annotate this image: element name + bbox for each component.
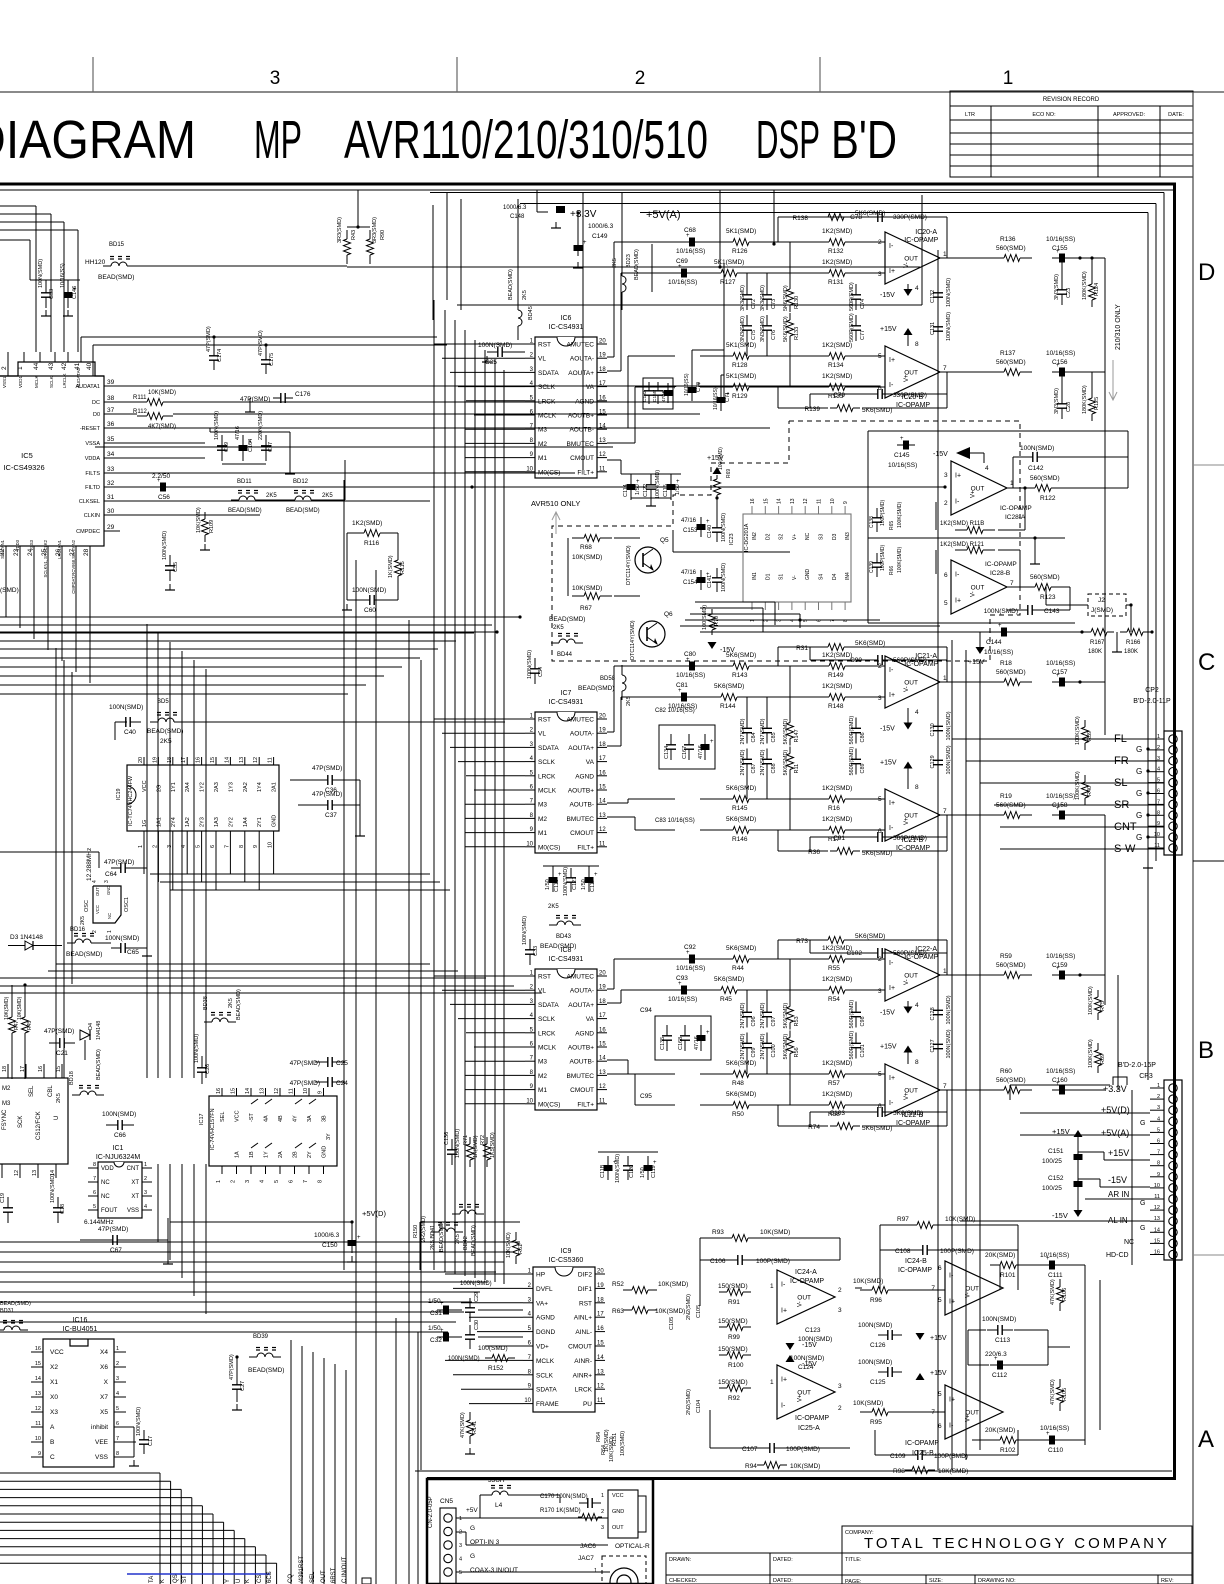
svg-text:C134: C134: [664, 746, 670, 759]
IC17 IC-74VHC157FN: [209, 1096, 337, 1166]
svg-text:I+: I+: [889, 692, 895, 699]
svg-text:47P(SMD): 47P(SMD): [258, 330, 264, 356]
svg-text:I+: I+: [955, 598, 961, 605]
svg-text:2K5: 2K5: [80, 916, 86, 925]
svg-text:FRAME: FRAME: [536, 1401, 559, 1408]
capacitor C33 100N(SMD): [529, 939, 531, 950]
svg-text:10/16(SS): 10/16(SS): [1046, 793, 1075, 800]
svg-text:10K(SMD): 10K(SMD): [196, 507, 202, 533]
capacitor C114 1/50: [630, 474, 632, 500]
svg-text:6: 6: [878, 1103, 882, 1110]
capacitor C55 100N(SMD): [169, 555, 171, 566]
svg-text:150(SMD): 150(SMD): [718, 1346, 748, 1353]
capacitor C130 100N(SMD): [937, 717, 939, 727]
svg-text:19: 19: [599, 728, 606, 734]
svg-text:10K(SMD): 10K(SMD): [853, 1278, 883, 1285]
svg-text:17: 17: [599, 756, 606, 762]
capacitor C36 47P(SMD): [315, 779, 328, 781]
svg-text:I+: I+: [781, 1308, 787, 1315]
svg-text:X7: X7: [100, 1394, 108, 1401]
svg-text:VA: VA: [586, 1016, 595, 1023]
svg-text:VL: VL: [538, 731, 546, 738]
svg-text:I-: I-: [889, 960, 894, 967]
svg-text:C28: C28: [1066, 402, 1072, 412]
capacitor/resistor R11: [789, 747, 791, 754]
svg-text:100N(SMD): 100N(SMD): [858, 1359, 892, 1366]
svg-text:1N4148: 1N4148: [96, 1021, 102, 1040]
capacitor C111 10/16: [1043, 1264, 1061, 1266]
svg-text:44: 44: [33, 362, 40, 370]
svg-text:1: 1: [943, 968, 947, 975]
svg-text:220N(SMD): 220N(SMD): [258, 411, 264, 440]
svg-text:100N(SMD): 100N(SMD): [946, 1029, 952, 1058]
svg-text:18: 18: [599, 999, 606, 1005]
svg-text:7: 7: [1010, 580, 1014, 587]
svg-text:47/16: 47/16: [661, 390, 666, 402]
svg-text:C81: C81: [676, 682, 688, 689]
svg-text:M2: M2: [538, 816, 547, 823]
svg-text:M2: M2: [538, 1073, 547, 1080]
svg-text:4: 4: [260, 1180, 266, 1183]
svg-text:R124: R124: [1094, 283, 1100, 296]
svg-text:10/16(SS): 10/16(SS): [1040, 1425, 1069, 1432]
capacitor C26 100N(SMD): [201, 1056, 203, 1068]
svg-text:1K(SMD): 1K(SMD): [388, 555, 394, 578]
svg-text:2: 2: [92, 930, 98, 933]
border thick top double line: [0, 183, 1176, 186]
svg-text:14: 14: [597, 1355, 604, 1361]
svg-text:IC17: IC17: [199, 1113, 205, 1125]
svg-text:BEAD(SMD): BEAD(SMD): [471, 1225, 477, 1256]
svg-text:AVR510 ONLY: AVR510 ONLY: [531, 499, 580, 508]
capacitor C164 47/16: [242, 435, 244, 461]
output resistor R136 560(SMD): [992, 257, 1004, 259]
resistor R57: [820, 1073, 829, 1075]
svg-text:10/16(SS): 10/16(SS): [888, 462, 917, 469]
svg-text:+: +: [706, 1030, 710, 1036]
svg-text:R64: R64: [601, 1445, 607, 1455]
svg-text:13: 13: [32, 1170, 38, 1176]
svg-text:100P(SMD): 100P(SMD): [756, 1258, 790, 1265]
resistor R143: [724, 665, 733, 667]
left edge stubs: [0, 385, 1, 387]
svg-text:IC23: IC23: [729, 533, 735, 545]
left vertical bus: [146, 624, 148, 1078]
svg-text:8: 8: [318, 1180, 324, 1183]
svg-text:HP: HP: [536, 1272, 545, 1279]
svg-text:5K6(SMD): 5K6(SMD): [783, 1034, 789, 1060]
svg-text:C115: C115: [663, 484, 669, 497]
svg-text:47P(SMD): 47P(SMD): [312, 791, 342, 798]
svg-text:IC1: IC1: [113, 1145, 124, 1152]
svg-text:BD18: BD18: [69, 1071, 75, 1085]
svg-text:CS: CS: [257, 1575, 263, 1583]
svg-text:XT: XT: [131, 1194, 139, 1200]
svg-text:IC-74VHC157FN: IC-74VHC157FN: [210, 1108, 216, 1150]
cp3 supply arrows: [1074, 1130, 1083, 1137]
svg-text:DSP: DSP: [756, 110, 820, 170]
bead BD18: [72, 1094, 80, 1096]
svg-text:2: 2: [838, 1287, 842, 1294]
svg-text:R91: R91: [728, 1299, 740, 1306]
svg-text:1: 1: [459, 1516, 462, 1522]
svg-text:C160: C160: [1052, 1077, 1068, 1084]
svg-text:R116: R116: [364, 540, 379, 547]
svg-text:C164: C164: [248, 439, 254, 452]
svg-text:100K(SMD): 100K(SMD): [897, 547, 903, 573]
svg-text:100(SMD): 100(SMD): [718, 447, 724, 470]
svg-text:5K1(SMD): 5K1(SMD): [726, 228, 756, 235]
svg-text:V-: V-: [904, 979, 910, 985]
svg-text:4: 4: [459, 1557, 462, 1563]
capacitor/resistor C99: [746, 1033, 748, 1044]
svg-text:5K6(SMD): 5K6(SMD): [783, 1003, 789, 1029]
capacitor C65 100N(SMD): [111, 947, 121, 949]
svg-text:1: 1: [594, 1568, 597, 1574]
svg-text:CMOUT: CMOUT: [570, 830, 594, 837]
svg-text:100N(SMD): 100N(SMD): [194, 1034, 200, 1063]
resistor R141 47K(SMD): [469, 1412, 471, 1420]
svg-text:11: 11: [597, 1398, 604, 1404]
svg-text:10K(SMD): 10K(SMD): [17, 996, 23, 1020]
svg-text:OUT: OUT: [965, 1286, 979, 1293]
svg-text:13: 13: [1154, 1216, 1160, 1222]
svg-text:C119: C119: [651, 1165, 657, 1178]
power +15V arrow: [904, 1046, 913, 1053]
svg-text:1K2(SMD) R121: 1K2(SMD) R121: [940, 542, 985, 548]
svg-text:I+: I+: [889, 268, 895, 275]
cluster C133 C165 47/16: [643, 378, 673, 409]
resistor R92 150(SMD): [719, 1387, 727, 1389]
svg-text:AMUTEC: AMUTEC: [567, 342, 595, 349]
svg-text:C71: C71: [725, 392, 731, 402]
supply +15V near c144: [976, 647, 985, 654]
svg-text:560(SMD): 560(SMD): [996, 669, 1026, 676]
+3.3V corner stub: [1113, 1077, 1127, 1085]
svg-text:10K(SMD): 10K(SMD): [760, 1229, 790, 1236]
wire vertical x720: [719, 190, 721, 267]
capacitor C126 100N(SMD): [878, 1334, 888, 1336]
svg-text:C140: C140: [707, 525, 713, 538]
svg-text:/4391RST: /4391RST: [299, 1556, 305, 1583]
svg-text:GND: GND: [272, 815, 278, 827]
svg-text:C79: C79: [833, 392, 845, 399]
svg-text:2Y4: 2Y4: [171, 817, 177, 827]
svg-text:R146: R146: [732, 836, 748, 843]
svg-text:C155: C155: [1052, 245, 1068, 252]
svg-text:CMOUT: CMOUT: [568, 1344, 592, 1351]
svg-text:10/16(SS): 10/16(SS): [676, 672, 705, 679]
svg-text:2A3: 2A3: [214, 782, 220, 792]
svg-text:R68: R68: [580, 544, 592, 551]
svg-text:11: 11: [599, 841, 606, 847]
big wire box around IC9 region: [420, 1221, 520, 1223]
svg-text:C154: C154: [683, 580, 698, 586]
svg-text:5K6(SMD): 5K6(SMD): [893, 1110, 923, 1117]
svg-text:IN4: IN4: [845, 572, 851, 580]
svg-text:AGND: AGND: [575, 773, 594, 780]
svg-text:12: 12: [274, 1088, 280, 1094]
svg-text:2K5: 2K5: [266, 493, 277, 499]
svg-text:G: G: [1140, 1120, 1145, 1127]
svg-text:V-: V-: [904, 262, 910, 268]
capacitor/resistor C89: [855, 749, 857, 760]
svg-text:3N3(SMD): 3N3(SMD): [760, 285, 766, 311]
svg-text:BEAD(SMD): BEAD(SMD): [248, 1367, 284, 1374]
svg-text:FSYNC: FSYNC: [2, 1109, 8, 1130]
svg-text:X3: X3: [50, 1409, 58, 1416]
svg-text:10/16(SS): 10/16(SS): [676, 965, 705, 972]
svg-text:10: 10: [303, 1088, 309, 1094]
svg-text:100N(SMD): 100N(SMD): [478, 342, 512, 349]
svg-text:R19: R19: [1000, 793, 1012, 800]
svg-text:13: 13: [239, 757, 245, 763]
svg-text:IC-CS4931: IC-CS4931: [549, 956, 584, 963]
sheet right margin line: [1192, 92, 1194, 1584]
svg-text:VDD3: VDD3: [15, 539, 20, 551]
svg-text:AOUTA-: AOUTA-: [570, 356, 594, 363]
svg-text:X6: X6: [100, 1364, 108, 1371]
svg-text:C159: C159: [1052, 962, 1068, 969]
resistor R93 10K(SMD): [723, 1237, 732, 1239]
bead BD16: [67, 942, 75, 944]
svg-text:3: 3: [601, 1525, 604, 1531]
svg-text:560P(SMD): 560P(SMD): [893, 835, 927, 842]
resistor R71 1K(SMD): [469, 1137, 471, 1144]
svg-text:3N3(SMD): 3N3(SMD): [1054, 274, 1060, 300]
svg-text:2: 2: [635, 68, 646, 89]
svg-text:150(SMD): 150(SMD): [718, 1318, 748, 1325]
svg-text:+: +: [594, 872, 598, 878]
svg-text:1: 1: [943, 251, 947, 258]
svg-text:12: 12: [803, 498, 809, 504]
svg-text:15: 15: [210, 757, 216, 763]
svg-text:X0: X0: [50, 1394, 58, 1401]
op-amp IC22-B IC-OPAMP: [885, 1064, 940, 1116]
osc OSC1: [93, 886, 121, 923]
svg-text:10K(SMD): 10K(SMD): [658, 1281, 688, 1288]
border bottom thick: [427, 1477, 1176, 1480]
svg-text:-15V: -15V: [802, 1342, 817, 1349]
svg-text:VA: VA: [586, 384, 595, 391]
svg-text:V-: V-: [792, 575, 798, 580]
svg-text:1K2(SMD): 1K2(SMD): [822, 816, 852, 823]
svg-text:C56: C56: [158, 494, 170, 501]
svg-text:R63: R63: [612, 1308, 624, 1315]
svg-text:VDD: VDD: [101, 1166, 114, 1172]
resistor R132: [820, 241, 829, 243]
svg-text:C112: C112: [992, 1372, 1007, 1379]
resistor R116 1K2(SMD): [355, 532, 364, 534]
svg-text:JAC7: JAC7: [578, 1555, 594, 1562]
svg-text:R57: R57: [828, 1080, 840, 1087]
svg-text:40: 40: [86, 362, 93, 370]
svg-text:C148: C148: [510, 214, 525, 220]
svg-text:1K2(SMD): 1K2(SMD): [822, 373, 852, 380]
svg-text:AOUTB+: AOUTB+: [568, 788, 594, 795]
svg-text:14: 14: [35, 1376, 41, 1382]
IC28-B op-amp: [951, 560, 1007, 614]
svg-text:2K5: 2K5: [548, 904, 559, 910]
svg-text:+: +: [583, 240, 587, 246]
bus drops to bottom area: [355, 1270, 357, 1584]
capacitor C127 100N(SMD): [937, 1035, 939, 1045]
svg-text:4: 4: [915, 709, 919, 716]
svg-text:SDATA: SDATA: [536, 1387, 557, 1394]
resistor R129: [724, 386, 733, 388]
svg-text:34: 34: [107, 451, 115, 458]
svg-text:R67: R67: [580, 605, 592, 612]
op-amp IC20-A IC-OPAMP: [885, 232, 940, 284]
svg-text:13: 13: [599, 1070, 606, 1076]
svg-text:10K(SMD): 10K(SMD): [506, 1232, 512, 1258]
svg-text:330P(SMD): 330P(SMD): [893, 392, 927, 399]
svg-text:560(SMD): 560(SMD): [996, 962, 1026, 969]
svg-text:I-: I-: [955, 572, 960, 579]
svg-text:NC: NC: [805, 532, 811, 540]
svg-text:IC-OPAMP: IC-OPAMP: [905, 1440, 939, 1447]
output cap C156 10/16(SS): [1052, 371, 1072, 373]
svg-text:C106: C106: [710, 1258, 726, 1265]
svg-text:5: 5: [944, 600, 948, 607]
resistor R48: [724, 1073, 733, 1075]
svg-text:V+: V+: [971, 490, 977, 498]
svg-text:1/50: 1/50: [675, 484, 681, 495]
svg-text:R11: R11: [794, 764, 800, 774]
resistor R57b 10K(SMD): [572, 595, 584, 597]
svg-text:1Y1: 1Y1: [171, 782, 177, 792]
svg-text:12: 12: [253, 757, 259, 763]
resistor R96 10K(SMD): [860, 1289, 872, 1291]
svg-text:CMPDEC: CMPDEC: [76, 529, 100, 535]
svg-text:C19: C19: [0, 1193, 6, 1203]
feedback resistor R36: [830, 850, 837, 852]
resistor R16: [820, 798, 829, 800]
svg-text:2: 2: [838, 1405, 842, 1412]
svg-text:C129: C129: [930, 755, 936, 768]
svg-text:B'D-2.0-11P: B'D-2.0-11P: [1133, 698, 1171, 705]
svg-text:560(SMD): 560(SMD): [996, 1077, 1026, 1084]
channel1 out C28 3N3(SMD): [1061, 393, 1063, 404]
svg-text:I-: I-: [889, 667, 894, 674]
svg-text:R131: R131: [828, 279, 844, 286]
svg-text:REV:: REV:: [1161, 1578, 1174, 1584]
center vertical bus: [343, 480, 345, 1270]
svg-text:10: 10: [1154, 1183, 1160, 1189]
capacitor C112 220/6.3: [990, 1364, 1010, 1366]
svg-text:C11B: C11B: [600, 1164, 606, 1178]
svg-text:C120: C120: [629, 1165, 635, 1178]
svg-text:IC-TC74VHC244FW: IC-TC74VHC244FW: [128, 775, 134, 826]
svg-text:15: 15: [56, 1066, 62, 1072]
svg-text:12: 12: [599, 1084, 606, 1090]
svg-text:100N(SMD): 100N(SMD): [214, 411, 220, 440]
svg-text:5: 5: [459, 1570, 462, 1576]
svg-text:R52: R52: [612, 1281, 624, 1288]
wires r43 r90: [347, 226, 370, 228]
svg-text:C: C: [50, 1454, 55, 1461]
svg-text:C108: C108: [895, 1248, 911, 1255]
svg-text:5K6(SMD): 5K6(SMD): [726, 1091, 756, 1098]
svg-text:C67: C67: [110, 1247, 122, 1254]
svg-text:6: 6: [93, 1190, 96, 1196]
svg-text:SCLK: SCLK: [49, 376, 54, 388]
svg-text:28: 28: [83, 548, 90, 556]
capacitor/resistor C73: [766, 284, 768, 295]
svg-text:R152: R152: [488, 1365, 504, 1372]
svg-text:17: 17: [597, 1312, 604, 1318]
capacitor C32 1/50: [437, 1336, 455, 1338]
svg-text:inhibit: inhibit: [91, 1424, 108, 1431]
capacitor/resistor R56: [789, 1031, 791, 1038]
column tick x=820: [819, 57, 821, 92]
svg-text:C105: C105: [669, 1317, 675, 1330]
svg-text:C149: C149: [592, 233, 608, 240]
svg-text:QS: QS: [173, 1574, 179, 1583]
svg-text:GND: GND: [106, 886, 111, 895]
svg-text:IN1: IN1: [752, 572, 758, 580]
IC5 IC-CS49326: [0, 376, 104, 546]
svg-text:M1: M1: [538, 1087, 547, 1094]
svg-text:C130: C130: [930, 723, 936, 736]
svg-text:VCC: VCC: [50, 1349, 64, 1356]
capacitor C170 100N(SMD): [579, 1502, 588, 1504]
capacitor C150 1000/6.3: [351, 1233, 353, 1253]
resistor R97 10K(SMD): [908, 1224, 917, 1226]
svg-text:11: 11: [268, 757, 274, 763]
svg-text:38: 38: [107, 395, 115, 402]
svg-text:1K2(SMD): 1K2(SMD): [822, 228, 852, 235]
svg-text:L4: L4: [495, 1502, 503, 1509]
svg-text:C165: C165: [652, 390, 658, 402]
svg-text:100N(SMD): 100N(SMD): [946, 278, 952, 307]
svg-text:DTC114Y(SMD): DTC114Y(SMD): [630, 620, 636, 660]
svg-text:16: 16: [597, 1326, 604, 1332]
svg-text:A: A: [1198, 1426, 1214, 1453]
svg-text:100K(SMD): 100K(SMD): [1075, 716, 1081, 745]
svg-text:5K6(SMD): 5K6(SMD): [726, 1060, 756, 1067]
svg-text:CMPDAT,RCV958,SDATAN2: CMPDAT,RCV958,SDATAN2: [71, 539, 76, 593]
svg-text:C64: C64: [105, 871, 117, 878]
bead BD23 vertical: [622, 276, 626, 292]
svg-text:BD58: BD58: [600, 676, 616, 682]
capacitor/resistor C96: [746, 1002, 748, 1013]
svg-text:C145: C145: [894, 452, 910, 459]
svg-text:C84: C84: [751, 732, 757, 742]
svg-text:AINR-: AINR-: [574, 1358, 592, 1365]
svg-text:C60: C60: [364, 607, 376, 614]
svg-text:R90: R90: [380, 230, 386, 240]
svg-text:CMOUT: CMOUT: [570, 455, 594, 462]
svg-text:2N7(SMD): 2N7(SMD): [740, 718, 746, 744]
svg-text:OUT: OUT: [904, 256, 918, 263]
border right thick: [1173, 184, 1176, 1479]
svg-text:C70: C70: [696, 382, 702, 392]
top rail wires: [582, 192, 584, 470]
svg-text:14: 14: [777, 498, 783, 504]
svg-text:AOUTA-: AOUTA-: [570, 731, 594, 738]
svg-text:Q6: Q6: [664, 611, 673, 618]
svg-text:7: 7: [116, 1436, 119, 1442]
svg-text:1A: 1A: [235, 1151, 241, 1158]
svg-text:I-: I-: [955, 499, 960, 506]
svg-text:+: +: [998, 623, 1002, 629]
capacitor C128 100N(SMD): [937, 1001, 939, 1011]
svg-text:8: 8: [93, 1162, 96, 1168]
svg-text:NC: NC: [101, 1180, 110, 1186]
svg-text:19: 19: [599, 985, 606, 991]
svg-text:DTC114Y(SMD): DTC114Y(SMD): [626, 545, 632, 585]
